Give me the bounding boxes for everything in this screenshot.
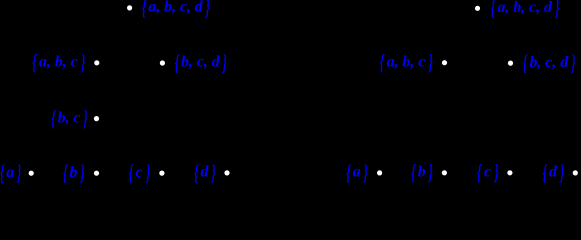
svg-text:b: b: [418, 164, 426, 181]
svg-text:b, c, d: b, c, d: [181, 54, 221, 71]
svg-text:d: d: [549, 164, 558, 181]
svg-text:a, b, c: a, b, c: [39, 54, 78, 71]
node {b,c} left diagram: [94, 116, 99, 121]
node {d} right diagram: [573, 170, 578, 175]
label {a} left diagram: [0, 160, 22, 185]
svg-text:a: a: [353, 164, 361, 181]
svg-text:}: }: [428, 160, 434, 185]
label {b, c, d} right diagram: [523, 50, 576, 75]
label {b} left diagram: [63, 160, 85, 185]
label {a, b, c, d} right diagram: [491, 0, 560, 20]
svg-text:}: }: [79, 160, 85, 185]
label {c} left diagram: [129, 160, 151, 185]
svg-text:}: }: [559, 160, 565, 185]
svg-text:d: d: [200, 164, 209, 181]
svg-text:c: c: [136, 164, 143, 181]
svg-text:}: }: [221, 50, 227, 75]
svg-text:}: }: [493, 160, 499, 185]
label {b} right diagram: [411, 160, 433, 185]
node {b} right diagram: [442, 170, 447, 175]
label {d} left diagram: [194, 160, 216, 185]
node {b,c,d} left diagram: [160, 60, 165, 65]
node {b} left diagram: [94, 171, 99, 176]
label {a, b, c, d} left diagram: [142, 0, 210, 20]
svg-text:a, b, c, d: a, b, c, d: [148, 0, 204, 16]
node {c} right diagram: [507, 170, 512, 175]
svg-text:}: }: [145, 160, 151, 185]
svg-text:b, c, d: b, c, d: [529, 54, 569, 71]
node {a} left diagram: [29, 171, 34, 176]
label {b, c} left diagram: [51, 105, 88, 130]
svg-text:}: }: [80, 50, 86, 75]
svg-text:c: c: [484, 164, 491, 181]
svg-text:}: }: [210, 160, 216, 185]
svg-text:}: }: [554, 0, 560, 20]
label {d} right diagram: [543, 160, 565, 185]
label {c} right diagram: [477, 160, 499, 185]
node {a,b,c} right diagram: [442, 60, 447, 65]
svg-text:}: }: [82, 105, 88, 130]
svg-text:}: }: [205, 0, 211, 20]
label {a, b, c} right diagram: [380, 49, 434, 74]
svg-text:b: b: [69, 164, 77, 181]
node {b,c,d} right diagram: [508, 61, 513, 66]
node {d} left diagram: [224, 170, 229, 175]
svg-text:a: a: [6, 164, 14, 181]
svg-text:}: }: [16, 160, 22, 185]
node {a,b,c} left diagram: [94, 60, 99, 65]
svg-text:}: }: [428, 49, 434, 74]
node {c} left diagram: [159, 171, 164, 176]
svg-text:}: }: [570, 50, 576, 75]
svg-text:a, b, c: a, b, c: [387, 53, 426, 70]
svg-text:a, b, c, d: a, b, c, d: [497, 0, 553, 16]
svg-text:}: }: [363, 160, 369, 185]
label {a, b, c} left diagram: [32, 50, 86, 75]
node {a,b,c,d} top-left diagram: [127, 5, 132, 10]
node {a} right diagram: [377, 170, 382, 175]
svg-text:b, c: b, c: [58, 109, 81, 126]
label {b, c, d} left diagram: [175, 50, 227, 75]
label {a} right diagram: [346, 160, 368, 185]
node {a,b,c,d} top-right diagram: [475, 6, 480, 11]
